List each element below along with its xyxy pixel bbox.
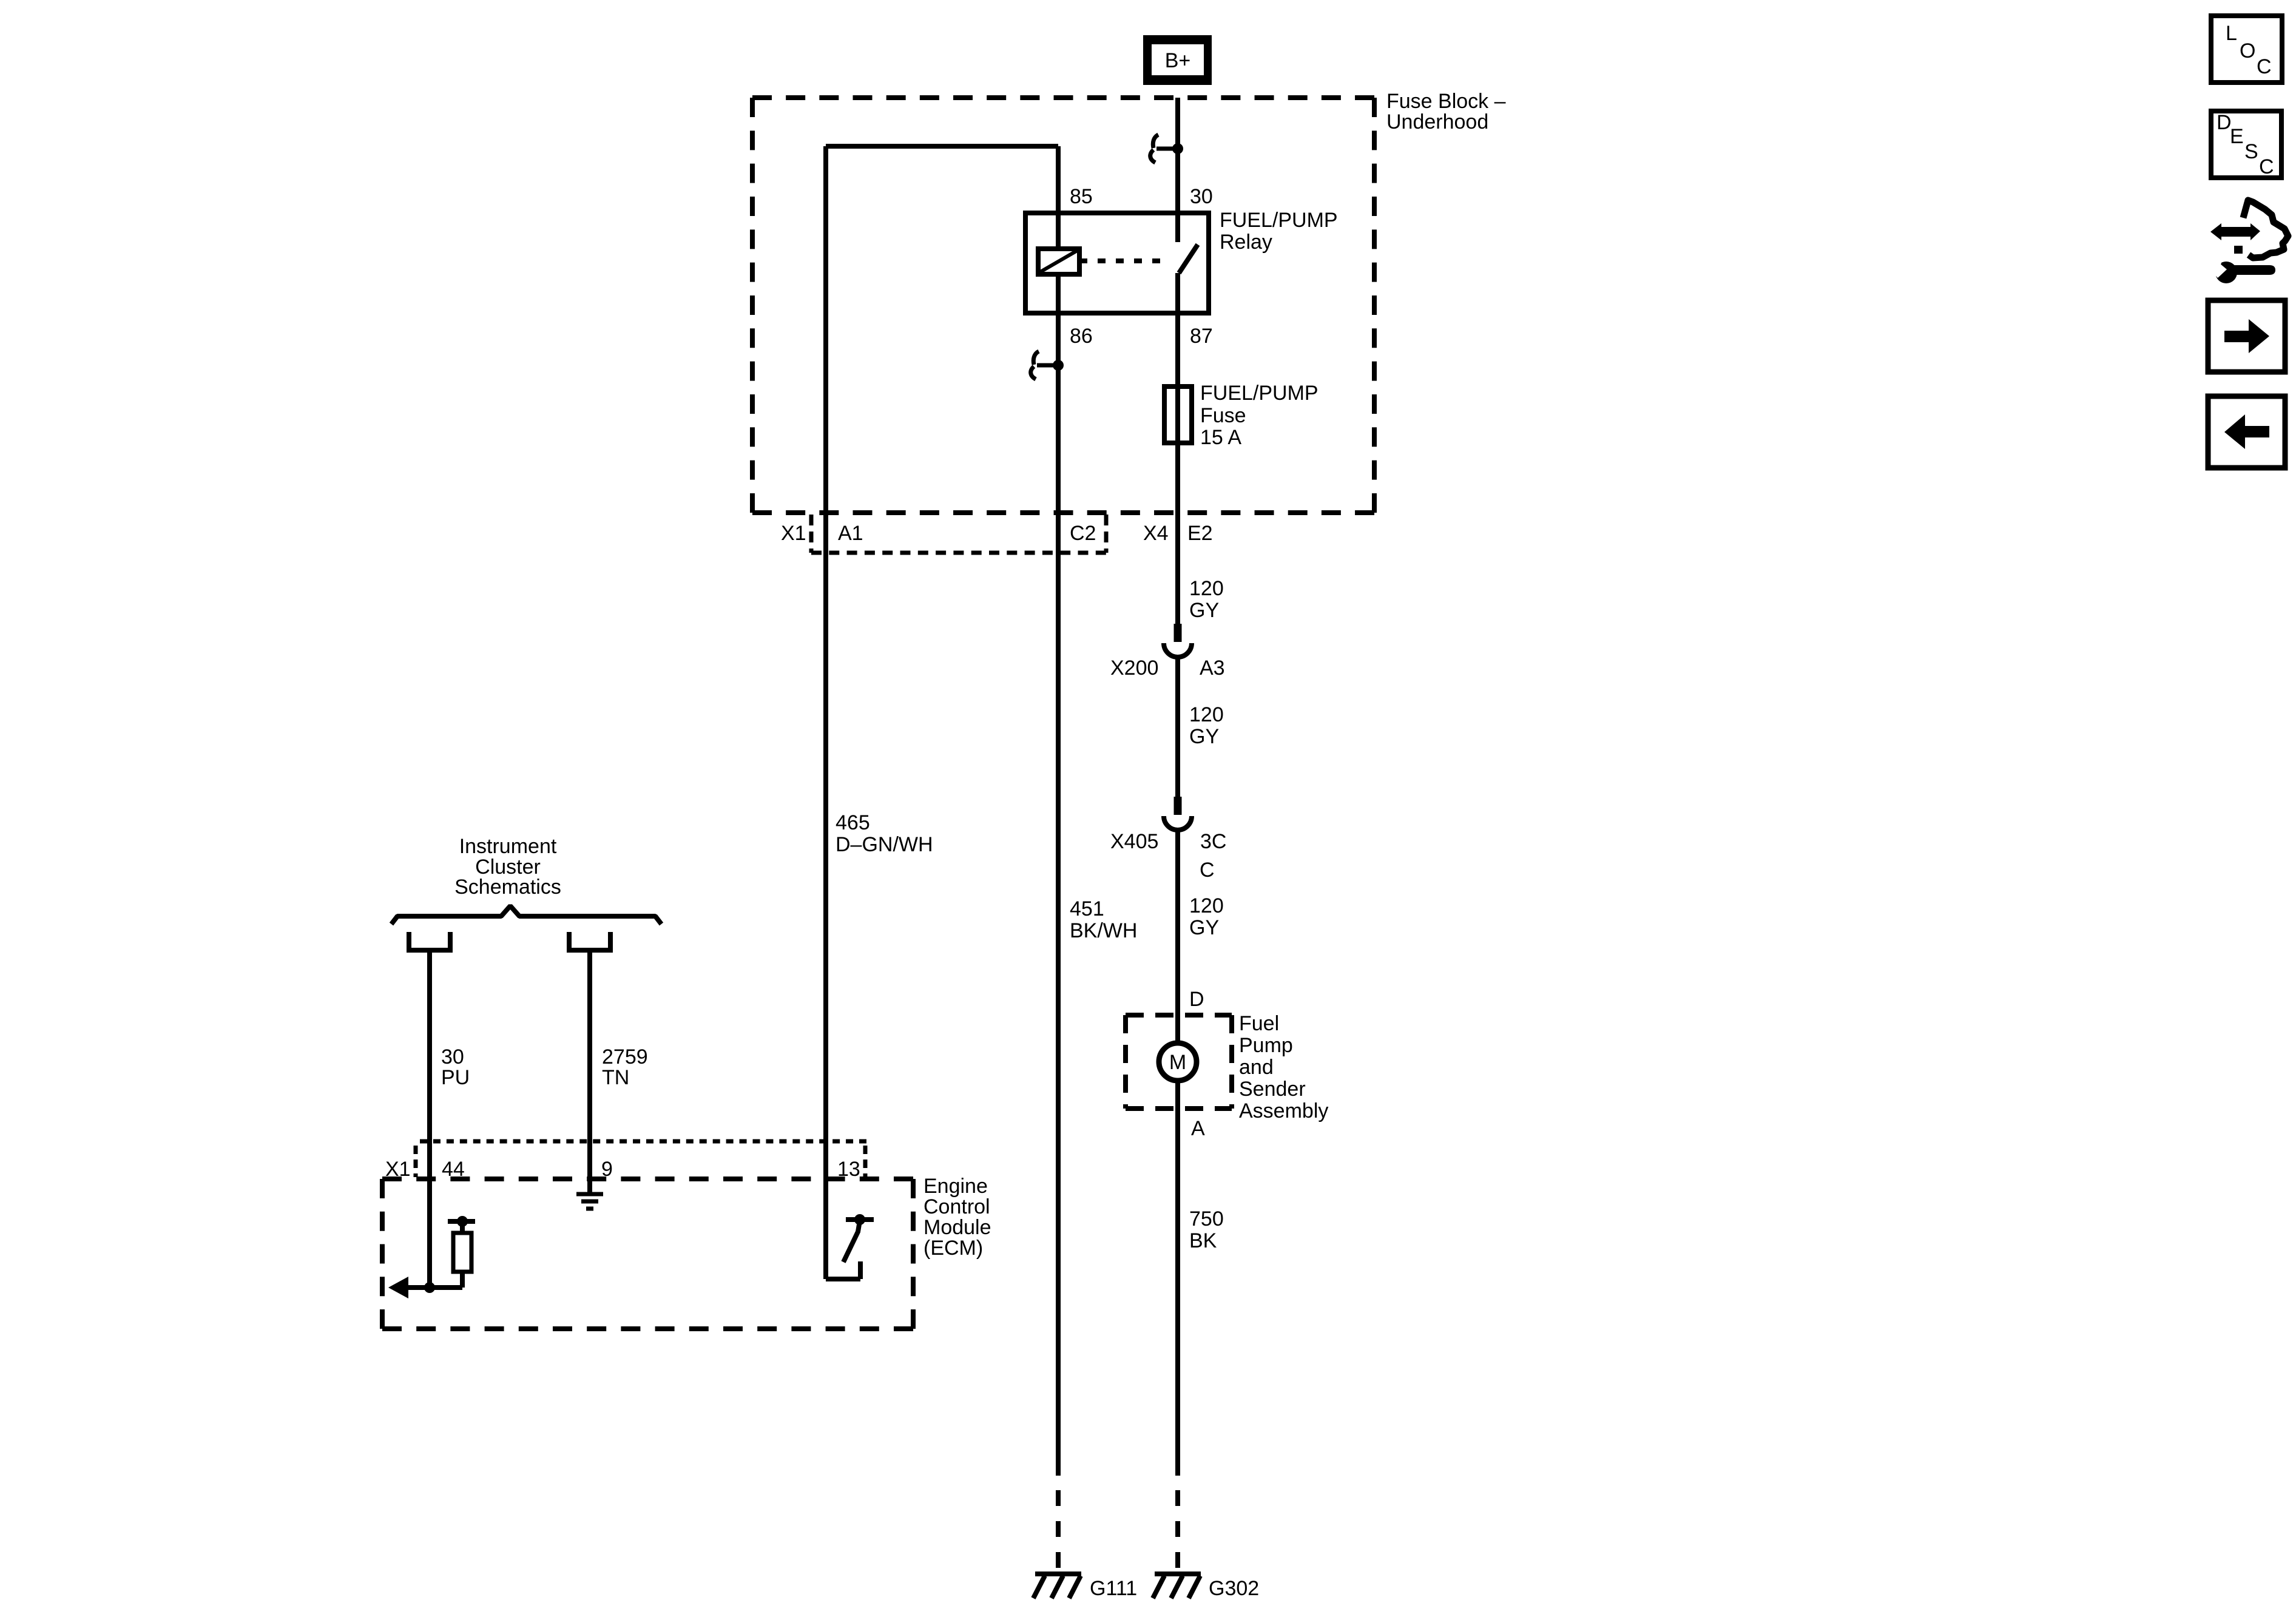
svg-text:PU: PU <box>441 1066 470 1089</box>
svg-text:FUEL/PUMP: FUEL/PUMP <box>1220 209 1338 232</box>
svg-text:BK/WH: BK/WH <box>1070 919 1137 942</box>
svg-text:X4: X4 <box>1143 522 1169 545</box>
svg-text:451: 451 <box>1070 897 1104 920</box>
svg-text:X200: X200 <box>1110 657 1158 680</box>
svg-text:Instrument: Instrument <box>459 835 557 858</box>
svg-text:Relay: Relay <box>1220 231 1272 254</box>
svg-text:L: L <box>2226 22 2237 45</box>
svg-text:85: 85 <box>1070 185 1093 208</box>
svg-text:A3: A3 <box>1200 657 1225 680</box>
svg-text:15 A: 15 A <box>1200 426 1241 449</box>
svg-text:G302: G302 <box>1209 1577 1259 1600</box>
svg-text:Fuel: Fuel <box>1239 1012 1279 1035</box>
svg-text:D: D <box>2217 111 2232 134</box>
svg-text:750: 750 <box>1189 1207 1224 1230</box>
svg-text:465: 465 <box>836 811 870 834</box>
svg-text:Pump: Pump <box>1239 1034 1293 1057</box>
svg-text:120: 120 <box>1189 894 1224 917</box>
svg-text:86: 86 <box>1070 325 1093 348</box>
svg-text:BK: BK <box>1189 1229 1217 1252</box>
svg-text:120: 120 <box>1189 577 1224 600</box>
svg-text:Sender: Sender <box>1239 1078 1306 1101</box>
svg-text:Schematics: Schematics <box>454 876 561 899</box>
svg-text:C2: C2 <box>1070 522 1096 545</box>
svg-text:D: D <box>1189 988 1204 1011</box>
svg-text:C: C <box>1200 859 1215 882</box>
svg-text:30: 30 <box>441 1045 464 1068</box>
svg-text:E2: E2 <box>1187 522 1213 545</box>
svg-text:Engine: Engine <box>923 1175 988 1198</box>
svg-text:120: 120 <box>1189 703 1224 726</box>
svg-text:Underhood: Underhood <box>1386 110 1488 133</box>
svg-text:Control: Control <box>923 1195 990 1218</box>
svg-text:and: and <box>1239 1056 1274 1079</box>
svg-text:FUEL/PUMP: FUEL/PUMP <box>1200 382 1319 405</box>
svg-text:O: O <box>2240 39 2255 62</box>
svg-text:Module: Module <box>923 1216 991 1239</box>
svg-text:X1: X1 <box>781 522 806 545</box>
svg-text:3C: 3C <box>1200 830 1226 853</box>
svg-text:GY: GY <box>1189 916 1219 939</box>
svg-text:G111: G111 <box>1090 1577 1137 1600</box>
svg-text:A1: A1 <box>838 522 863 545</box>
svg-text:2759: 2759 <box>602 1045 648 1068</box>
svg-text:X405: X405 <box>1110 830 1158 853</box>
svg-text:M: M <box>1169 1051 1186 1074</box>
svg-text:Fuse: Fuse <box>1200 404 1246 427</box>
svg-text:TN: TN <box>602 1066 629 1089</box>
svg-text:Assembly: Assembly <box>1239 1099 1328 1122</box>
svg-text:Fuse Block –: Fuse Block – <box>1386 90 1506 113</box>
svg-text:87: 87 <box>1190 325 1213 348</box>
svg-text:(ECM): (ECM) <box>923 1237 983 1260</box>
svg-text:30: 30 <box>1190 185 1213 208</box>
svg-text:B+: B+ <box>1165 49 1191 72</box>
svg-text:C: C <box>2259 155 2274 178</box>
svg-text:A: A <box>1191 1117 1205 1140</box>
svg-text:E: E <box>2230 125 2244 148</box>
svg-text:GY: GY <box>1189 725 1219 748</box>
svg-text:D–GN/WH: D–GN/WH <box>836 833 933 856</box>
svg-text:GY: GY <box>1189 599 1219 622</box>
svg-text:S: S <box>2244 140 2258 163</box>
svg-text:C: C <box>2257 55 2272 78</box>
